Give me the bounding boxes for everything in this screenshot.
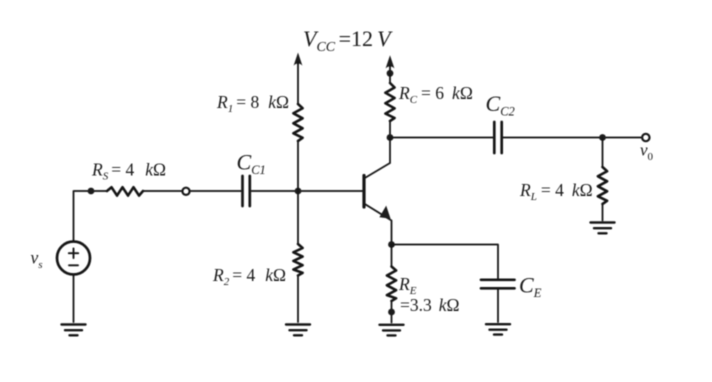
ground (vs) <box>62 325 86 336</box>
capacitor CC2 <box>494 122 501 153</box>
transistor Q1 <box>364 138 392 245</box>
wire R1 to base node <box>297 141 299 191</box>
wire RL top <box>602 138 604 168</box>
ground (RL) <box>591 223 615 234</box>
resistor R1 <box>293 104 302 141</box>
wire vs to ground <box>73 275 75 323</box>
VCC arrow (right) <box>386 55 395 70</box>
node dot (RC top) <box>387 70 394 77</box>
wire CC1 to base node <box>251 190 362 192</box>
VCC arrow (left) <box>294 53 303 105</box>
node dot (RE bottom) <box>388 309 395 316</box>
resistor RC <box>385 83 394 121</box>
node dot (base / R1 R2 junction) <box>295 188 302 195</box>
resistor R2 <box>293 244 302 276</box>
node dot (collector) <box>387 134 394 141</box>
wire dot to RC <box>389 73 391 83</box>
svg-text:R1= 8kΩ: R1= 8kΩ <box>216 92 289 115</box>
wire Rs to open node <box>143 190 182 192</box>
wire collector to CC2 <box>390 137 493 139</box>
wire RE to ground <box>391 301 393 323</box>
wire CC2 to output <box>503 137 641 139</box>
ground (R2) <box>286 325 310 336</box>
node dot (RL top) <box>599 134 606 141</box>
capacitor CC1 <box>243 176 250 206</box>
node dot (emitter) <box>388 241 395 248</box>
wire open node to CC1 <box>190 190 241 192</box>
resistor RE <box>387 267 396 302</box>
wire emitter to CE <box>392 245 499 279</box>
voltage source vs <box>57 242 90 275</box>
wire RC to collector node <box>389 121 391 138</box>
open node (input) <box>182 188 189 195</box>
svg-text:RL= 4kΩ: RL= 4kΩ <box>519 180 593 203</box>
svg-text:RC= 6kΩ: RC= 6kΩ <box>398 83 473 106</box>
capacitor CE <box>481 280 515 289</box>
resistor RS <box>107 187 143 195</box>
open node (v0 terminal) <box>642 134 649 141</box>
ground (RE) <box>380 325 404 336</box>
svg-text:R2= 4kΩ: R2= 4kΩ <box>212 265 286 288</box>
wire emitter to RE <box>391 245 393 267</box>
node dot (vs-Rs) <box>88 188 95 195</box>
wire R2 to ground <box>297 276 299 323</box>
resistor RL <box>598 167 607 204</box>
wire vs to input node <box>74 191 108 242</box>
svg-text:RS= 4kΩ: RS= 4kΩ <box>91 160 166 183</box>
ground (CE) <box>486 324 510 334</box>
svg-text:=3.3kΩ: =3.3kΩ <box>400 295 460 315</box>
wire CE to ground <box>497 288 499 322</box>
wire base node to R2 <box>297 191 299 244</box>
wire RL to ground <box>602 204 604 221</box>
